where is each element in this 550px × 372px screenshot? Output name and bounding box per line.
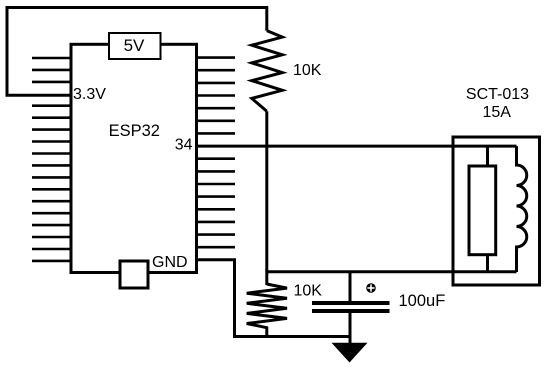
- svg-text:5V: 5V: [124, 36, 145, 55]
- svg-text:GND: GND: [152, 254, 188, 271]
- svg-text:100uF: 100uF: [399, 292, 446, 310]
- wire 3.3V loop: [7, 8, 267, 96]
- connector 5V box: [109, 33, 161, 59]
- transformer SCT-013 coil: [517, 146, 527, 272]
- wire divider vertical: [265, 111, 268, 285]
- svg-text:10K: 10K: [293, 62, 322, 79]
- resistor R2 10K bottom: [247, 284, 287, 337]
- connector GND box: [120, 261, 148, 288]
- svg-text:ESP32: ESP32: [109, 122, 160, 140]
- ESP32 U1 body: [71, 44, 197, 272]
- svg-text:10K: 10K: [294, 283, 323, 300]
- transformer SCT-013 stub top: [486, 146, 489, 166]
- ESP32 left pins: [32, 58, 71, 261]
- transformer SCT-013 outer box: [453, 137, 540, 285]
- ground: [332, 343, 368, 363]
- svg-text:15A: 15A: [482, 104, 511, 121]
- wire pin34 to sensor: [197, 145, 517, 148]
- svg-text:SCT-013: SCT-013: [466, 86, 529, 103]
- transformer SCT-013 burden element: [469, 166, 496, 255]
- ESP32 right pins: [197, 58, 236, 248]
- capacitor C1 stem top: [349, 272, 352, 301]
- capacitor C1 stem bottom: [349, 313, 352, 343]
- capacitor C1 plates: [312, 301, 390, 305]
- resistor R1 10K top: [252, 31, 282, 112]
- capacitor C1 polarity plus: [366, 283, 376, 293]
- wire divider midpoint to sensor bottom: [267, 270, 517, 273]
- svg-text:3.3V: 3.3V: [73, 86, 106, 103]
- svg-text:34: 34: [175, 137, 193, 154]
- transformer SCT-013 stub bottom: [486, 255, 489, 272]
- wire GND to bottom rail: [197, 260, 351, 337]
